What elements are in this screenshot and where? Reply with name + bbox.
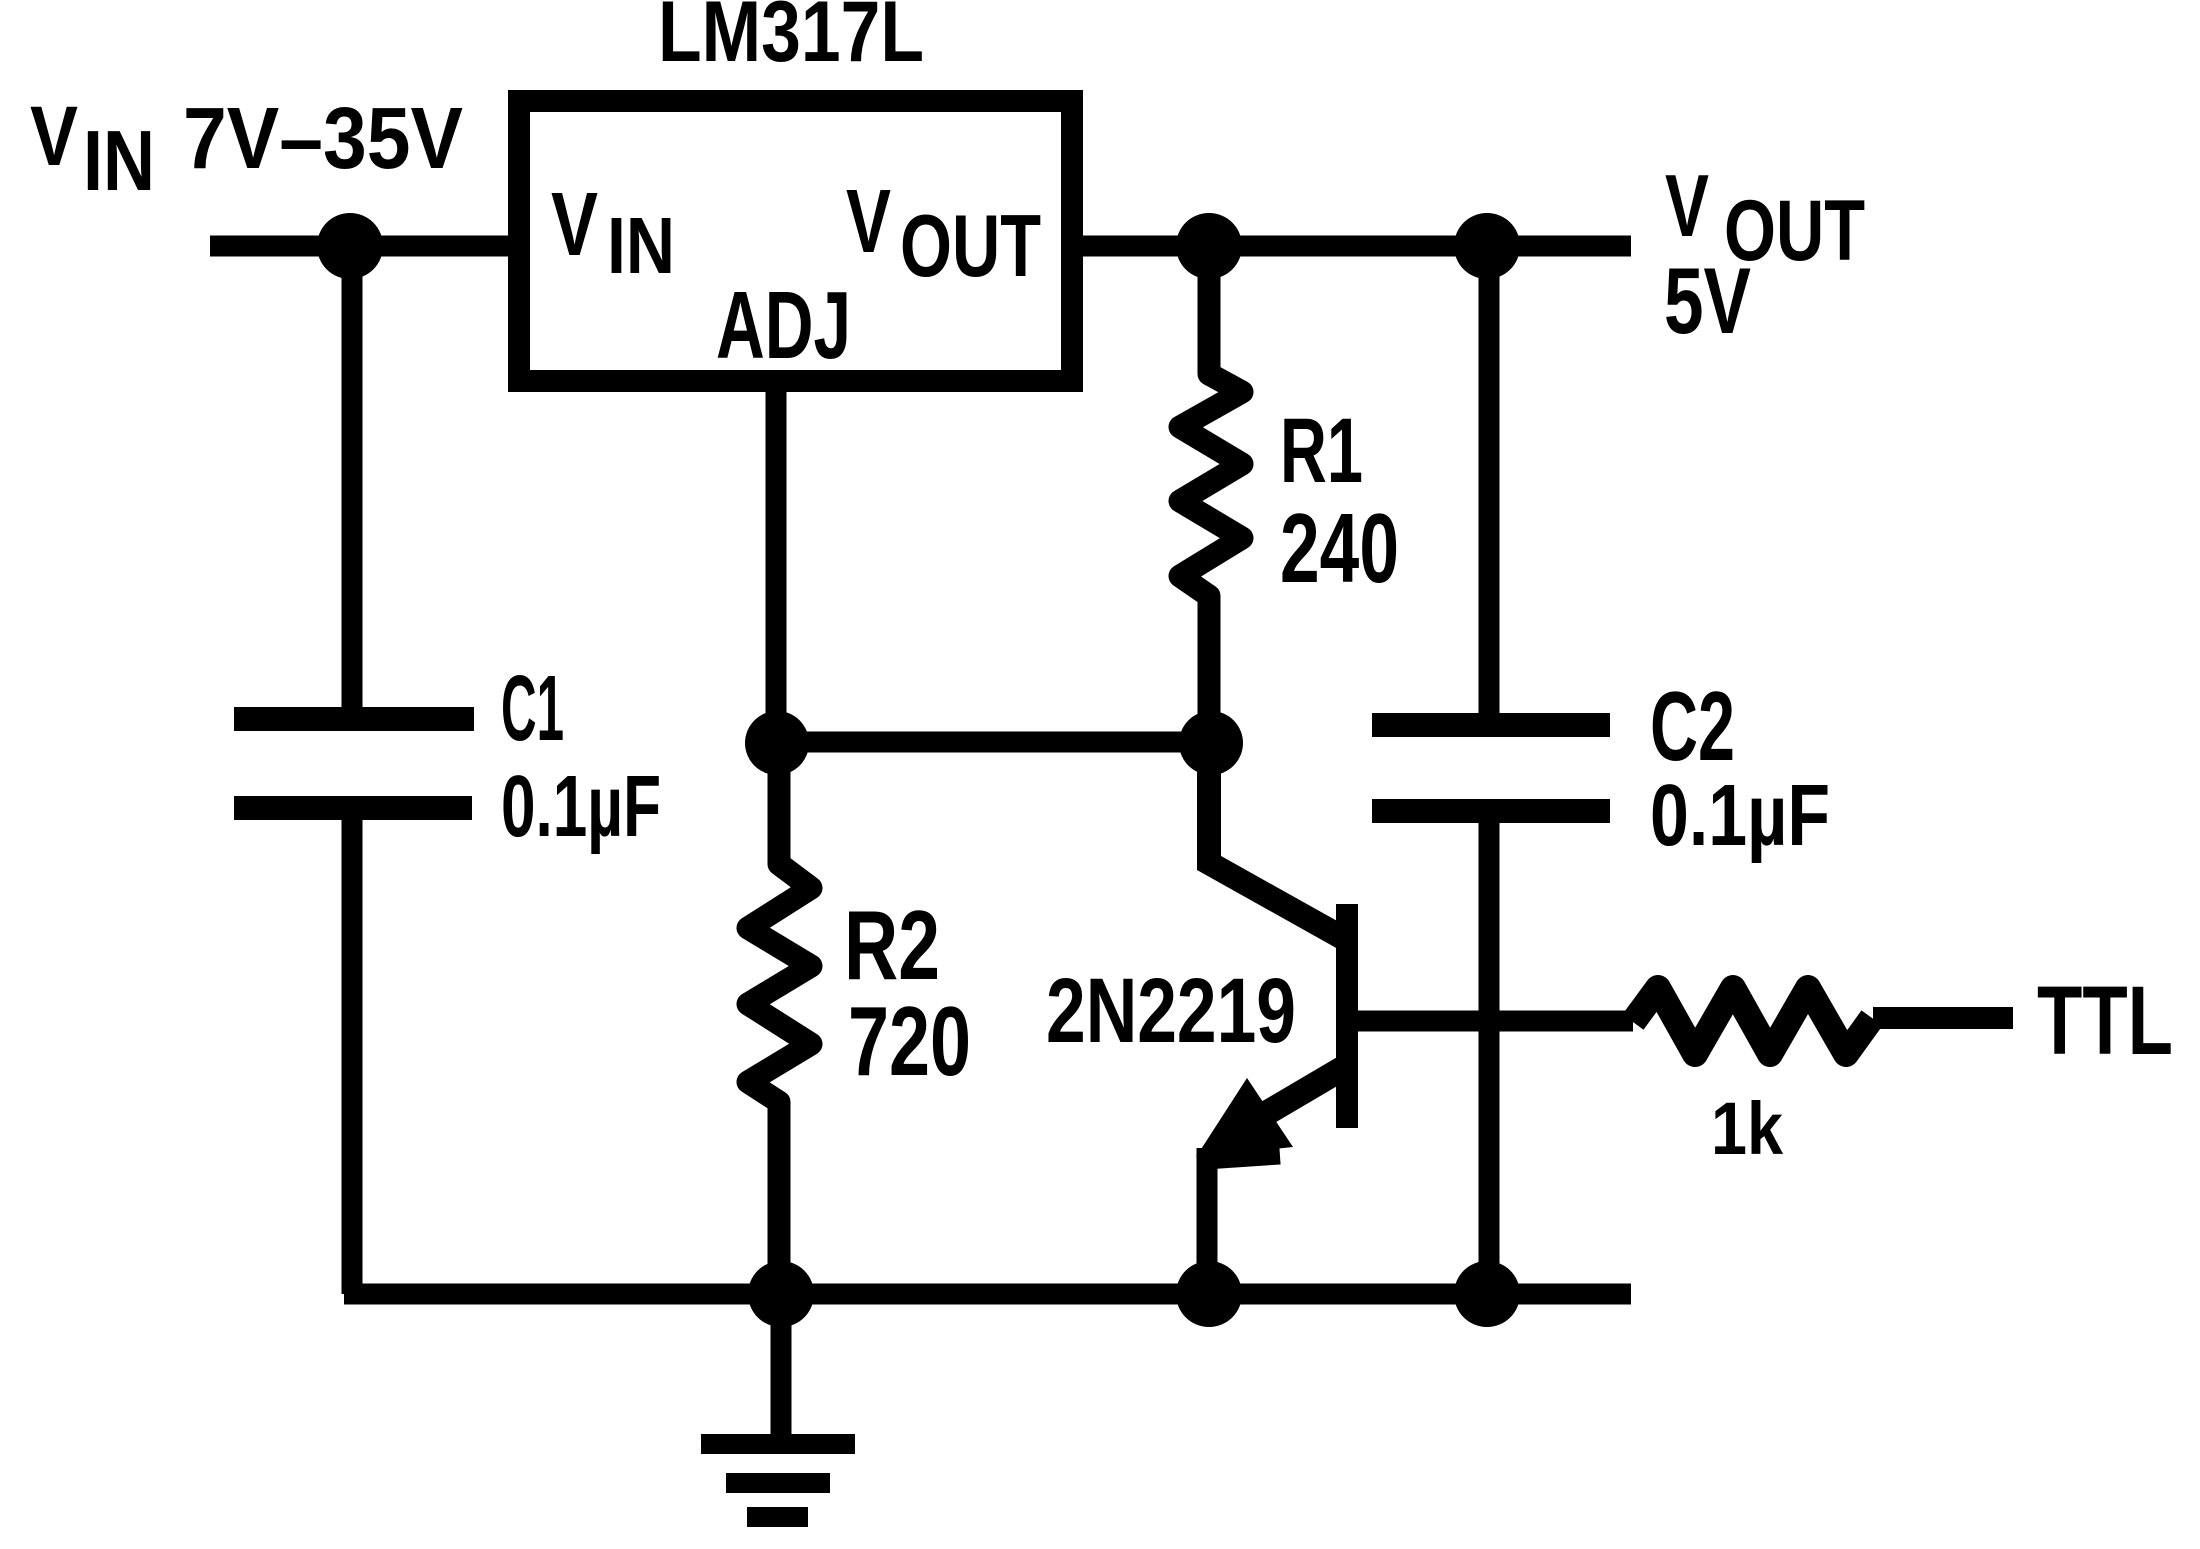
resistor 1k — [1633, 988, 1872, 1054]
wire: 1k to TTL — [1873, 1007, 2013, 1029]
node: VIN junction — [317, 213, 383, 279]
node: ground rail emitter junction — [1176, 1261, 1242, 1327]
svg-text:720: 720 — [848, 986, 971, 1096]
svg-text:0.1µF: 0.1µF — [501, 758, 661, 855]
svg-text:7V–35V: 7V–35V — [183, 90, 463, 187]
wire: ADJ pin column — [766, 381, 787, 745]
capacitor C2 — [1372, 725, 1610, 811]
svg-text:V: V — [846, 172, 891, 272]
transistor Q1 2N2219 collector lead — [1209, 743, 1343, 938]
svg-text:0.1µF: 0.1µF — [1650, 767, 1830, 864]
regulator U1 LM317L box — [519, 101, 1072, 381]
svg-text:V: V — [30, 89, 78, 183]
node: VOUT-R1 junction — [1176, 213, 1242, 279]
svg-text:R2: R2 — [844, 890, 940, 1000]
svg-text:IN: IN — [607, 201, 675, 290]
svg-text:240: 240 — [1280, 493, 1399, 603]
svg-text:IN: IN — [83, 114, 155, 209]
node: VOUT-C2 junction — [1454, 213, 1520, 279]
node: ground rail R2 junction — [748, 1261, 814, 1327]
resistor R2 — [748, 745, 811, 1294]
svg-text:1k: 1k — [1711, 1087, 1784, 1170]
capacitor C1 — [234, 719, 474, 808]
wire: ground rail — [344, 1284, 1631, 1305]
svg-text:V: V — [551, 175, 598, 275]
svg-text:V: V — [1665, 156, 1709, 255]
svg-text:TTL: TTL — [2037, 966, 2173, 1075]
resistor R1 — [1180, 246, 1242, 743]
wire: C1 top column — [342, 246, 363, 710]
transistor Q1 base bar — [1336, 904, 1358, 1128]
wire: VOUT wire from regulator to output — [1072, 236, 1631, 257]
wire: C2 bottom column — [1479, 821, 1500, 1294]
node: ADJ junction — [745, 711, 809, 775]
transistor Q1 emitter lead with arrow — [1255, 1064, 1350, 1120]
svg-text:ADJ: ADJ — [716, 272, 851, 379]
node: ground rail C2 junction — [1454, 1261, 1520, 1327]
node: R1-collector junction — [1179, 711, 1243, 775]
wire: VIN input wire to regulator — [210, 236, 519, 257]
svg-text:C2: C2 — [1650, 671, 1735, 781]
svg-text:R1: R1 — [1280, 400, 1363, 502]
svg-text:OUT: OUT — [900, 196, 1041, 295]
svg-text:2N2219: 2N2219 — [1046, 960, 1296, 1062]
wire: base wire to 1k — [1356, 1011, 1633, 1032]
svg-text:5V: 5V — [1664, 248, 1751, 353]
ground — [701, 1294, 855, 1517]
wire: C1 bottom column — [342, 818, 363, 1294]
svg-text:LM317L: LM317L — [658, 0, 924, 80]
svg-text:C1: C1 — [501, 656, 564, 760]
wire: C2 top column — [1479, 246, 1500, 716]
wire: ADJ to R1 node link — [776, 732, 1211, 753]
